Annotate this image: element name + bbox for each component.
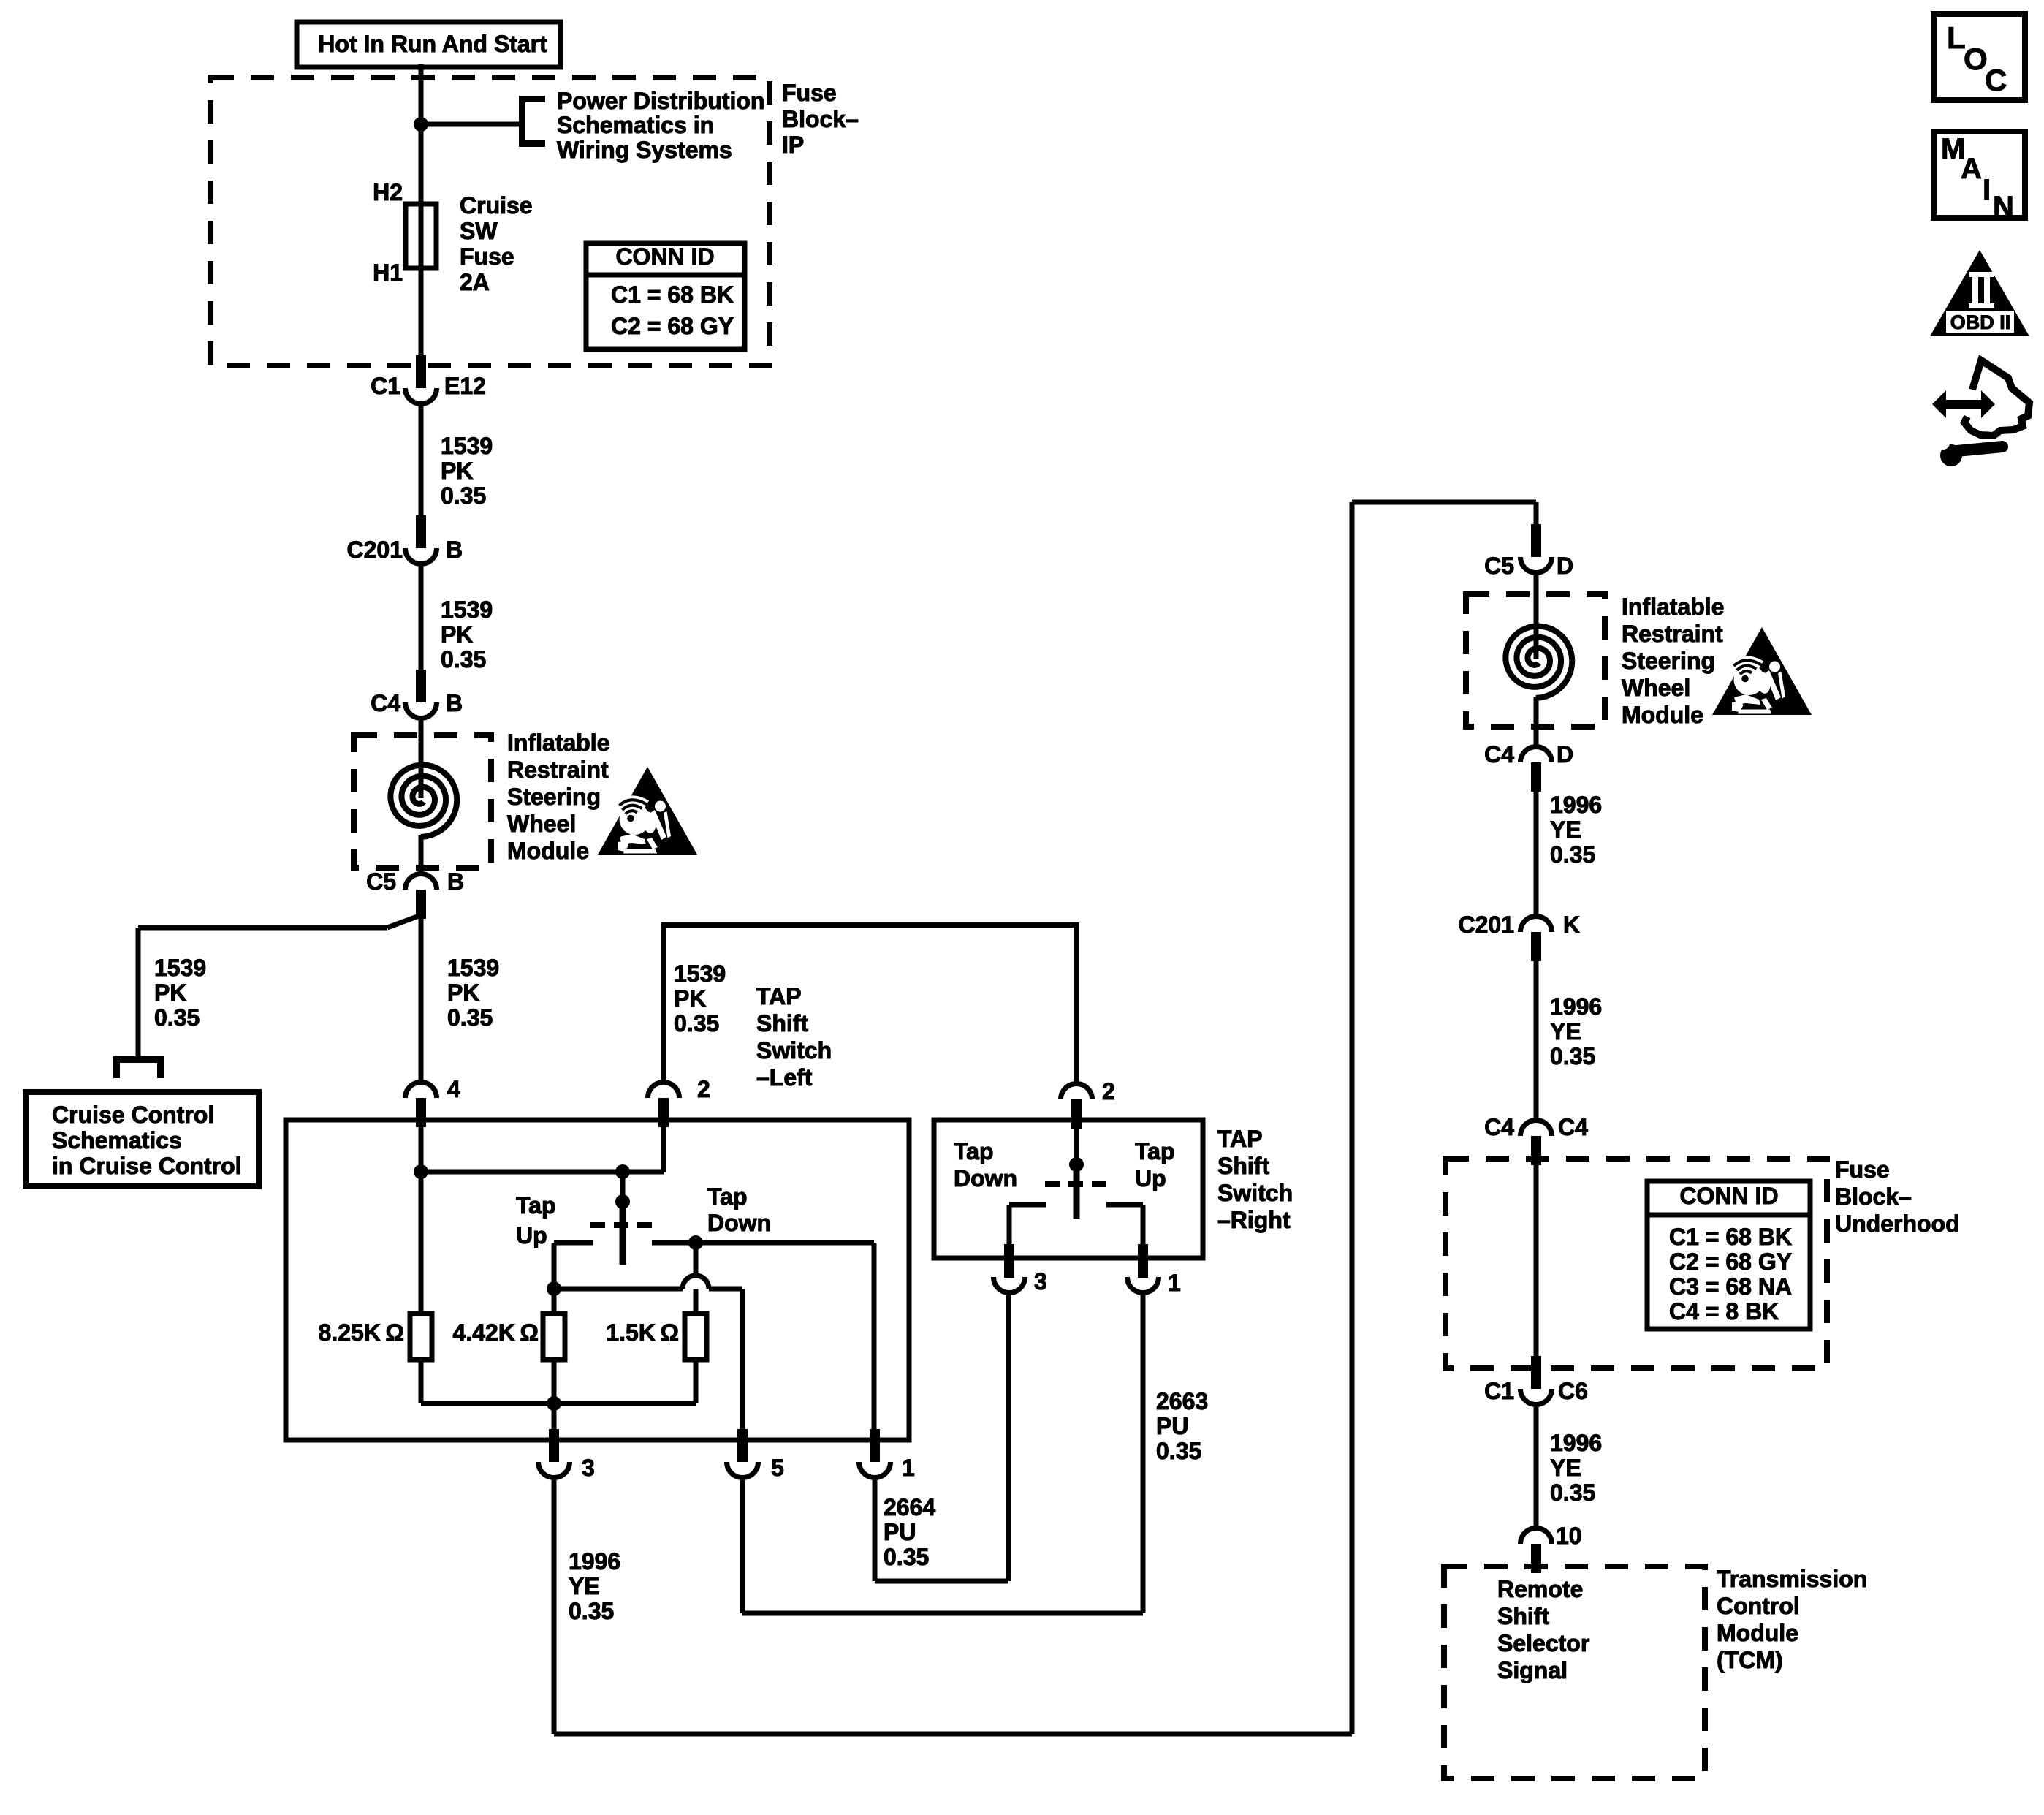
svg-text:Schematics in: Schematics in (557, 112, 714, 138)
svg-text:4.42K Ω: 4.42K Ω (453, 1319, 539, 1346)
svg-text:0.35: 0.35 (447, 1004, 493, 1031)
svg-text:C1 = 68 BK: C1 = 68 BK (611, 281, 734, 308)
svg-text:D: D (1557, 553, 1573, 579)
svg-text:SW: SW (460, 218, 498, 244)
svg-text:–Right: –Right (1217, 1207, 1291, 1233)
svg-text:Transmission: Transmission (1717, 1566, 1867, 1592)
svg-text:B: B (446, 690, 463, 716)
svg-text:Block–: Block– (782, 106, 859, 132)
svg-text:10: 10 (1556, 1523, 1582, 1549)
svg-text:C4: C4 (1484, 741, 1514, 768)
svg-text:0.35: 0.35 (569, 1598, 614, 1624)
svg-text:Schematics: Schematics (52, 1127, 182, 1153)
svg-text:PK: PK (441, 458, 473, 484)
svg-text:IP: IP (782, 132, 804, 158)
svg-text:Tap: Tap (1135, 1138, 1175, 1164)
svg-text:1: 1 (1168, 1270, 1181, 1296)
svg-text:Control: Control (1717, 1593, 1800, 1619)
svg-text:Up: Up (1135, 1165, 1166, 1191)
svg-text:CONN ID: CONN ID (615, 243, 714, 270)
svg-text:Module: Module (507, 838, 589, 864)
svg-text:Shift: Shift (756, 1010, 808, 1037)
svg-text:C4: C4 (1558, 1114, 1588, 1140)
svg-text:C201: C201 (347, 537, 403, 563)
svg-text:3: 3 (1034, 1268, 1047, 1295)
svg-text:8.25K Ω: 8.25K Ω (319, 1319, 404, 1346)
svg-text:0.35: 0.35 (441, 482, 486, 509)
svg-text:Fuse: Fuse (460, 243, 514, 270)
svg-text:1996: 1996 (1550, 792, 1602, 818)
svg-text:Cruise Control: Cruise Control (52, 1102, 214, 1128)
svg-text:Down: Down (954, 1165, 1017, 1191)
svg-text:4: 4 (447, 1076, 460, 1102)
svg-text:YE: YE (569, 1573, 600, 1599)
svg-text:Selector: Selector (1497, 1630, 1589, 1656)
svg-text:TAP: TAP (1217, 1126, 1263, 1152)
svg-text:0.35: 0.35 (1550, 841, 1595, 868)
svg-text:C5: C5 (1484, 553, 1514, 579)
svg-text:–Left: –Left (756, 1064, 813, 1091)
svg-text:1539: 1539 (674, 960, 726, 987)
svg-text:C2 = 68 GY: C2 = 68 GY (611, 313, 734, 339)
svg-text:Tap: Tap (707, 1183, 748, 1210)
svg-text:2663: 2663 (1156, 1388, 1208, 1414)
svg-text:C1 = 68 BK: C1 = 68 BK (1669, 1224, 1792, 1250)
svg-text:1539: 1539 (441, 433, 493, 459)
svg-text:C6: C6 (1558, 1378, 1588, 1404)
svg-text:OBD II: OBD II (1950, 311, 2011, 333)
svg-text:3: 3 (582, 1455, 595, 1481)
svg-text:YE: YE (1550, 1018, 1581, 1045)
svg-text:0.35: 0.35 (154, 1004, 200, 1031)
svg-text:B: B (446, 537, 463, 563)
svg-text:PU: PU (884, 1519, 916, 1545)
svg-text:Switch: Switch (756, 1037, 832, 1064)
svg-text:Hot In Run And Start: Hot In Run And Start (318, 31, 547, 57)
svg-text:1996: 1996 (1550, 993, 1602, 1020)
svg-text:PK: PK (441, 621, 473, 648)
svg-text:CONN ID: CONN ID (1679, 1183, 1778, 1209)
svg-text:E12: E12 (444, 373, 486, 399)
svg-text:Cruise: Cruise (460, 192, 533, 219)
svg-text:C3 = 68 NA: C3 = 68 NA (1669, 1273, 1792, 1300)
svg-text:1.5K Ω: 1.5K Ω (606, 1319, 679, 1346)
svg-text:PK: PK (154, 980, 186, 1006)
svg-text:Module: Module (1717, 1620, 1798, 1646)
svg-text:Restraint: Restraint (1622, 621, 1723, 647)
svg-text:H2: H2 (373, 179, 403, 205)
svg-text:C4: C4 (371, 690, 400, 716)
svg-text:C5: C5 (366, 868, 396, 895)
svg-text:in Cruise Control: in Cruise Control (52, 1153, 242, 1179)
svg-text:Inflatable: Inflatable (507, 730, 609, 756)
svg-text:Inflatable: Inflatable (1622, 594, 1724, 620)
svg-text:TAP: TAP (756, 983, 802, 1009)
svg-text:C4: C4 (1484, 1114, 1514, 1140)
svg-text:5: 5 (771, 1455, 784, 1481)
svg-text:Wheel: Wheel (507, 811, 576, 837)
svg-text:0.35: 0.35 (1156, 1438, 1201, 1464)
svg-text:Remote: Remote (1497, 1576, 1583, 1602)
svg-text:Wiring Systems: Wiring Systems (557, 137, 732, 163)
svg-text:PK: PK (447, 980, 479, 1006)
svg-text:1539: 1539 (447, 955, 499, 981)
svg-text:0.35: 0.35 (674, 1010, 719, 1037)
svg-text:0.35: 0.35 (1550, 1479, 1595, 1506)
svg-text:D: D (1557, 741, 1573, 768)
svg-text:2664: 2664 (884, 1494, 935, 1520)
svg-text:A: A (1961, 153, 1982, 185)
svg-text:N: N (1993, 191, 2014, 223)
svg-text:C2 = 68 GY: C2 = 68 GY (1669, 1248, 1792, 1275)
svg-text:PK: PK (674, 985, 706, 1012)
svg-text:1539: 1539 (441, 596, 493, 623)
svg-text:2: 2 (1102, 1078, 1115, 1104)
svg-text:0.35: 0.35 (441, 646, 486, 672)
svg-text:Switch: Switch (1217, 1180, 1293, 1206)
svg-text:Module: Module (1622, 702, 1703, 728)
svg-text:C1: C1 (1484, 1378, 1514, 1404)
svg-text:1996: 1996 (569, 1548, 620, 1575)
svg-text:Restraint: Restraint (507, 757, 609, 783)
svg-text:Shift: Shift (1497, 1603, 1549, 1629)
svg-text:Fuse: Fuse (782, 80, 837, 106)
svg-text:2A: 2A (460, 269, 490, 295)
svg-text:Steering: Steering (1622, 648, 1715, 674)
svg-text:Tap: Tap (954, 1138, 994, 1164)
svg-text:L: L (1947, 20, 1966, 55)
svg-text:2: 2 (697, 1076, 710, 1102)
svg-text:YE: YE (1550, 816, 1581, 843)
svg-text:0.35: 0.35 (1550, 1043, 1595, 1069)
svg-text:Underhood: Underhood (1835, 1210, 1960, 1237)
svg-text:Signal: Signal (1497, 1657, 1568, 1683)
svg-text:Fuse: Fuse (1835, 1156, 1890, 1183)
svg-text:1539: 1539 (154, 955, 206, 981)
svg-text:H1: H1 (373, 259, 403, 286)
svg-text:C1: C1 (371, 373, 400, 399)
svg-text:C201: C201 (1459, 912, 1515, 938)
svg-text:1: 1 (902, 1455, 915, 1481)
svg-text:Down: Down (707, 1210, 771, 1236)
svg-text:Up: Up (516, 1222, 547, 1248)
svg-text:B: B (447, 868, 464, 895)
svg-text:PU: PU (1156, 1413, 1188, 1439)
svg-text:K: K (1563, 912, 1580, 938)
svg-text:O: O (1964, 42, 1988, 76)
svg-text:Wheel: Wheel (1622, 675, 1690, 701)
svg-text:YE: YE (1550, 1455, 1581, 1481)
svg-text:0.35: 0.35 (884, 1544, 929, 1570)
svg-text:C4 = 8 BK: C4 = 8 BK (1669, 1298, 1779, 1325)
svg-text:Block–: Block– (1835, 1183, 1912, 1210)
svg-text:Power Distribution: Power Distribution (557, 88, 764, 114)
svg-text:I: I (1983, 174, 1991, 206)
svg-text:(TCM): (TCM) (1717, 1647, 1783, 1673)
svg-text:Steering: Steering (507, 784, 601, 810)
svg-text:Tap: Tap (516, 1192, 556, 1219)
svg-text:C: C (1985, 63, 2007, 97)
svg-text:Shift: Shift (1217, 1153, 1269, 1179)
svg-text:1996: 1996 (1550, 1430, 1602, 1456)
